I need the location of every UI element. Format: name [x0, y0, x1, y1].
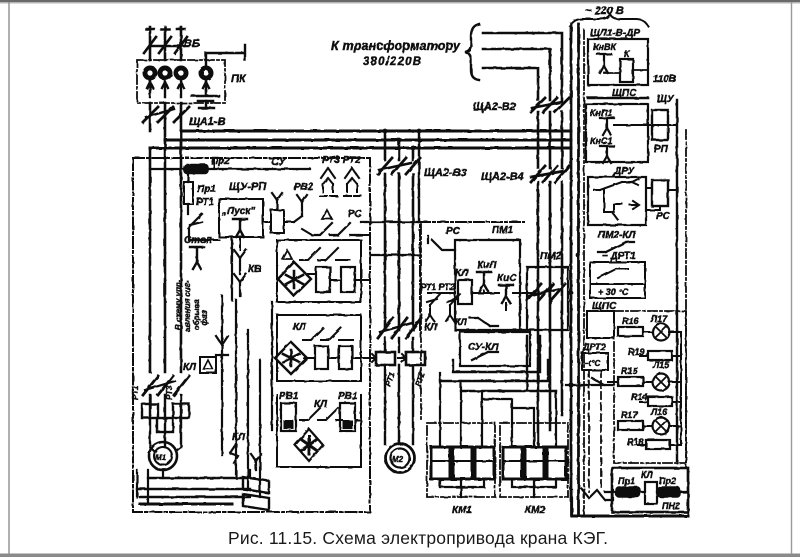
KL coil rect: [458, 280, 472, 304]
KL bank bar: [145, 381, 175, 390]
wire phase A top: [146, 27, 154, 60]
row3 resistor left: [281, 403, 296, 431]
inter-box wire y255: [370, 254, 419, 256]
wire to RP: [614, 124, 677, 126]
triangle in box1: [282, 250, 292, 259]
RT1 contact: [188, 214, 202, 228]
bottom verticals: [572, 468, 688, 516]
resistor R17: [618, 421, 643, 430]
heater RT3: [173, 404, 189, 418]
DRU box: [588, 177, 646, 225]
resistor R18: [646, 440, 670, 449]
svg-text:РВ1: РВ1: [279, 391, 299, 402]
KnP1 button: [600, 118, 614, 135]
connector stems: [250, 454, 261, 477]
arrow under circle 3: [178, 81, 184, 97]
svg-text:380/220В: 380/220В: [363, 56, 421, 68]
svg-text:ДРТ2: ДРТ2: [582, 342, 606, 352]
connector parallelogram top: [243, 477, 269, 493]
svg-text:ЩА2-В4: ЩА2-В4: [481, 171, 524, 183]
KV contact: [234, 250, 246, 274]
box2 resistor b: [339, 346, 352, 369]
DRT2 bottom zigzag: [581, 488, 613, 500]
PM2 contact bank: [527, 284, 565, 300]
DRT2 tall outline: [589, 370, 601, 492]
DRT1 box: [590, 262, 645, 284]
wires in PM1: [428, 291, 538, 310]
bottom heavy line: [572, 515, 688, 518]
ground under PK4: [192, 90, 219, 101]
PM1 left edge lower: [420, 224, 422, 420]
svg-text:ДРУ: ДРУ: [613, 166, 636, 177]
ShchA2-V3 bar: [379, 163, 411, 170]
PK circle 2: [158, 66, 173, 81]
wire r15 row: [608, 381, 681, 383]
lamp panel dash-dot box: [614, 311, 686, 463]
wire pr1: [187, 169, 189, 214]
phase wires below box: [150, 103, 181, 148]
svg-text:ЩУ-РП: ЩУ-РП: [229, 181, 267, 193]
KL bank bar M2: [380, 323, 412, 332]
scan frame right: [791, 2, 792, 554]
svg-text:R16: R16: [622, 316, 640, 326]
heater RT1 box: [376, 352, 395, 365]
KV contact 2: [234, 274, 246, 296]
K coil pn2: [645, 482, 657, 504]
svg-text:R17: R17: [621, 410, 639, 420]
svg-text:КнП1: КнП1: [590, 108, 612, 118]
svg-text:РТ1 РТ2: РТ1 РТ2: [420, 282, 455, 292]
DRU sensor polygon: [604, 190, 639, 220]
Pusk button: [233, 219, 247, 237]
diamond 3 filled star: [302, 436, 316, 454]
PM1 dash-dot box: [420, 222, 524, 330]
wire PM1 to 220V pair: [520, 292, 538, 294]
PK circle 3: [174, 66, 189, 81]
PM2 box outline: [520, 267, 568, 330]
connector parallelogram bottom: [243, 494, 269, 510]
resistor R19: [648, 351, 672, 360]
heater RT2 arrow: [398, 354, 406, 362]
bus line 2: [165, 139, 571, 142]
curly brace: [465, 24, 479, 80]
SchPS spare box: [587, 311, 614, 338]
scan frame left: [8, 2, 9, 554]
lamp L15: [653, 374, 670, 391]
svg-text:КЛ: КЛ: [641, 470, 654, 480]
box1 zigzag contact: [300, 248, 350, 260]
KM2 cell 2: [525, 447, 544, 479]
fuse Pr1 vertical: [184, 182, 193, 204]
svg-text:фаз: фаз: [200, 310, 209, 326]
lamp panel right link: [680, 332, 682, 445]
DRT2 sensor box: [582, 353, 608, 370]
wire r14: [640, 401, 681, 403]
fuse Pr2 pn2: [658, 487, 680, 497]
KM1 cell 1: [431, 447, 450, 479]
heater RT1 arrow: [368, 354, 376, 362]
svg-text:КЛ: КЛ: [293, 322, 307, 333]
svg-text:ЩЛ1-В-ДР: ЩЛ1-В-ДР: [590, 28, 640, 39]
svg-text:Л15: Л15: [652, 360, 670, 370]
resistor R15: [618, 377, 643, 386]
breaker ShchA2-V2 contacts: [531, 98, 569, 112]
control feed wire with fuse Pr2: [150, 168, 310, 170]
PK circle 1: [143, 66, 158, 81]
thermal heater boxes: [150, 395, 181, 447]
svg-text:ВБ: ВБ: [184, 38, 200, 50]
RT3 contact sym 1: [320, 168, 337, 196]
svg-text:КМ2: КМ2: [525, 505, 545, 516]
svg-text:КнС1: КнС1: [590, 136, 612, 146]
wires DRU-RS: [646, 188, 677, 210]
KL line contacts for M2: [378, 318, 421, 338]
breaker VB contact A: [144, 37, 156, 53]
svg-text:КВ: КВ: [248, 264, 261, 275]
svg-text:КЛ: КЛ: [183, 362, 197, 373]
KM1 cell 3: [475, 447, 494, 479]
svg-text:РТ3: РТ3: [165, 385, 174, 400]
diamond 2 star: [283, 350, 299, 366]
wires to heaters: [385, 338, 413, 352]
pn2 wires: [605, 491, 688, 493]
Pusk box: [219, 199, 263, 237]
mesh horizontal 391: [461, 336, 556, 391]
+30C box: [590, 284, 645, 298]
svg-text:110В: 110В: [653, 74, 676, 85]
wire mesh below PM1: [440, 373, 482, 447]
svg-text:−t°С: −t°С: [584, 359, 601, 368]
left drop wires: [137, 470, 148, 504]
svg-text:~ 220 В: ~ 220 В: [585, 5, 624, 17]
Stop button T: [190, 247, 204, 269]
wires to M2: [385, 365, 413, 444]
svg-text:ПК: ПК: [231, 73, 247, 85]
svg-text:К: К: [624, 49, 631, 59]
box SchL1: [588, 39, 648, 85]
panel dash-dot left edge: [583, 30, 585, 515]
lamp L17: [653, 324, 670, 341]
svg-text:R14: R14: [631, 392, 648, 402]
KM2 bottom links: [512, 479, 556, 497]
220V feed pair: [571, 24, 579, 515]
svg-text:К трансформатору: К трансформатору: [331, 39, 461, 53]
svg-text:ПМ2: ПМ2: [540, 251, 562, 262]
sub-box 2: [277, 315, 361, 381]
PK circle 4: [199, 66, 214, 81]
KM1 cell crossbars: [431, 460, 494, 462]
svg-text:ЩУ: ЩУ: [657, 94, 675, 105]
KL contact low: [470, 318, 498, 326]
SU-KL box: [460, 332, 530, 366]
right dashdot rail: [685, 130, 687, 468]
RS coil right: [652, 180, 668, 206]
wire r17 row: [643, 425, 681, 427]
ShchA2-V4 bar: [531, 171, 564, 177]
svg-text:КнВК: КнВК: [593, 42, 617, 52]
bus line 3: [150, 147, 571, 150]
transformer line 1: [483, 33, 562, 100]
KM1 bottom links: [440, 479, 484, 497]
diamond 1 star: [286, 271, 303, 288]
wire from PK4 up and right with tick: [206, 45, 245, 65]
RV2 arrow: [294, 195, 307, 222]
transformer line 2: [483, 49, 550, 100]
svg-text:КМ1: КМ1: [452, 505, 472, 516]
scan frame top: [0, 0, 800, 2]
motor M1 leads: [150, 447, 181, 478]
svg-text:ЩА2-В2: ЩА2-В2: [473, 101, 516, 113]
wire r18: [638, 444, 679, 446]
svg-text:авления сиг-: авления сиг-: [183, 280, 192, 332]
KL arrow blob: [230, 444, 238, 463]
KnS button: [499, 285, 513, 303]
KnS1 button: [600, 146, 614, 163]
svg-text:М1: М1: [155, 453, 167, 462]
KM1 cell 2: [453, 447, 472, 479]
wire x419 from bus: [418, 131, 420, 222]
svg-text:ПМ2-КЛ: ПМ2-КЛ: [598, 230, 637, 241]
return wires down to bottom: [236, 300, 272, 497]
bottom heavy wire: [140, 503, 232, 506]
svg-text:РТ1: РТ1: [131, 385, 140, 400]
mesh horizontal 381: [440, 360, 548, 381]
PM2-KL contact: [598, 242, 634, 252]
svg-text:РТ1: РТ1: [196, 197, 214, 208]
svg-text:РС: РС: [656, 211, 671, 222]
svg-text:КиП: КиП: [477, 260, 497, 271]
arrow under circle 1: [147, 81, 153, 97]
wire phase B top: [161, 27, 169, 60]
RV2 actuator Y: [272, 193, 282, 210]
motor M2: [386, 444, 415, 473]
resistor R16: [618, 327, 643, 336]
PM1 inner box: [455, 240, 520, 330]
triangle small 1: [322, 210, 332, 219]
svg-text:ЩА2-В3: ЩА2-В3: [424, 167, 467, 179]
wire phase C top: [177, 27, 185, 60]
svg-text:Рис. 11.15. Схема электроприво: Рис. 11.15. Схема электропривода крана К…: [228, 528, 608, 548]
arrow under circle 4: [203, 81, 209, 90]
svg-text:+ 30 °С: + 30 °С: [598, 287, 629, 297]
breaker ShchA2-V3 contacts: [378, 158, 420, 174]
wire r19: [640, 355, 681, 357]
ShchA2-V2 bar: [532, 102, 562, 108]
brace under 220V: [570, 14, 648, 26]
box1 resistor b: [341, 267, 355, 292]
svg-text:КЛ: КЛ: [232, 432, 246, 443]
fuse Pr2 body: [184, 165, 208, 174]
wire down to Stop: [189, 228, 203, 240]
svg-text:М2: М2: [392, 455, 404, 464]
PN2 box: [612, 468, 688, 512]
resistor R14: [648, 397, 672, 406]
svg-text:РС: РС: [348, 209, 363, 220]
small box w triangle: [200, 357, 216, 373]
KM2 cell 3: [547, 447, 566, 479]
breaker VB crossbar: [150, 45, 184, 47]
wires col x220-260 down: [222, 237, 232, 455]
box wires: [604, 70, 648, 73]
KM2 dash-dot box: [500, 423, 568, 497]
svg-text:Пр1: Пр1: [197, 184, 216, 195]
bus line 1: [181, 130, 571, 133]
bottom wires: [137, 478, 250, 497]
RS contacts zigzag: [312, 223, 360, 235]
DRU contact: [594, 179, 638, 190]
wires below ShchA2-V4 down to KM2: [538, 182, 562, 447]
row3 zigzag: [300, 408, 342, 420]
inter-box wire y222: [361, 221, 420, 223]
RT contact a: [426, 294, 440, 321]
RP coil: [652, 110, 668, 140]
SchPS bus line: [588, 97, 648, 100]
box2 wires: [304, 357, 361, 359]
KM1 dash-dot box: [427, 423, 495, 497]
junction dots: [383, 129, 388, 134]
box KnP1/KnS1: [586, 104, 648, 162]
svg-text:ЩА1-В: ЩА1-В: [189, 116, 226, 128]
box1 wires: [308, 274, 361, 280]
box SU dash-dot border: [133, 158, 370, 512]
breaker ShchA1-V bar: [146, 109, 174, 117]
KnVK button: [597, 54, 611, 73]
svg-text:КЛ: КЛ: [314, 399, 328, 410]
svg-text:РВ2: РВ2: [294, 182, 314, 193]
svg-text:КиС: КиС: [497, 273, 517, 284]
svg-text:КЛ: КЛ: [455, 317, 468, 327]
svg-text:КЛ: КЛ: [424, 322, 438, 333]
lamp L16: [653, 418, 670, 435]
DRT2 junction dot: [568, 382, 573, 387]
rectifier diamond 2: [275, 342, 307, 374]
svg-text:РП: РП: [654, 144, 669, 155]
branch wires to M2: [385, 131, 413, 160]
RV2 coil: [271, 210, 284, 233]
wire pusk down: [239, 237, 241, 250]
wires around RV2: [263, 221, 294, 223]
box1 resistor a: [316, 267, 330, 292]
KV contact mid: [216, 336, 228, 355]
wire from box1 right: [356, 280, 370, 420]
svg-text:ПМ1: ПМ1: [492, 225, 514, 236]
KL line contact bank: [143, 376, 189, 395]
sub-box 1: [277, 240, 361, 302]
row3 resistor right: [340, 403, 355, 431]
svg-text:R15: R15: [621, 366, 639, 376]
svg-text:Л16: Л16: [650, 407, 668, 417]
PM2 bar: [528, 289, 558, 296]
svg-text:РВ1: РВ1: [338, 391, 358, 402]
wire RS row: [302, 229, 370, 235]
mesh horizontal 408: [512, 391, 556, 447]
row3 box: [277, 395, 361, 467]
fuse Pr1 pn2: [616, 487, 640, 497]
breaker ShchA2-V4 contacts: [531, 166, 569, 182]
misc link wires: [203, 160, 268, 240]
box2 resistor a: [315, 346, 328, 369]
left phase wires inside box: [150, 131, 181, 372]
svg-text:РТ3 РТ2: РТ3 РТ2: [322, 155, 361, 166]
mesh horizontal 399: [482, 399, 512, 447]
DRT2 wire y385: [566, 378, 614, 385]
heater RT2 box: [406, 352, 425, 365]
heater RT2: [157, 418, 173, 432]
svg-text:ПН2: ПН2: [662, 501, 680, 511]
svg-text:Пр1: Пр1: [618, 476, 635, 486]
arrow under circle 2: [162, 81, 168, 97]
right vertical rail: [676, 100, 678, 462]
DRT1 contact: [598, 269, 628, 278]
KM2 cell crossbars: [503, 460, 566, 462]
RT contact b: [446, 294, 460, 321]
rectifier diamond 3: [295, 429, 323, 461]
motor M1: [149, 442, 177, 470]
M2 phase wires: [385, 174, 413, 330]
KiP button: [477, 272, 491, 291]
svg-text:Л17: Л17: [650, 314, 668, 324]
RT2 contact sym 2: [344, 168, 361, 196]
svg-text:КЛ: КЛ: [455, 268, 469, 279]
K coil: [620, 59, 633, 82]
rectifier diamond 1: [278, 262, 311, 296]
wires below ShchA2-V2: [538, 112, 562, 168]
svg-text:− ДРТ1: − ДРТ1: [602, 251, 636, 262]
svg-text:В схему упр-: В схему упр-: [174, 279, 183, 330]
ground stem to box bottom: [199, 101, 214, 108]
breaker ShchA1-V contacts: [143, 107, 189, 122]
heater RT1: [142, 404, 158, 418]
fuse box PK dashdot: [137, 60, 225, 103]
scan frame bottom: [0, 554, 800, 557]
svg-text:„Пуск": „Пуск": [221, 206, 255, 217]
transformer line 3: [483, 68, 538, 100]
KM2 cell 1: [503, 447, 522, 479]
svg-text:СУ: СУ: [271, 156, 288, 168]
mesh horizontal 371: [453, 336, 540, 372]
breaker VB contact C: [175, 37, 187, 53]
wire r16-l17: [643, 331, 681, 333]
svg-text:РС: РС: [446, 226, 461, 237]
SU-KL contact: [472, 352, 498, 360]
RS contact: [428, 236, 455, 250]
breaker VB contact B: [159, 37, 171, 53]
svg-text:Пр2: Пр2: [659, 476, 676, 486]
box2 zigzag contact: [303, 328, 353, 340]
